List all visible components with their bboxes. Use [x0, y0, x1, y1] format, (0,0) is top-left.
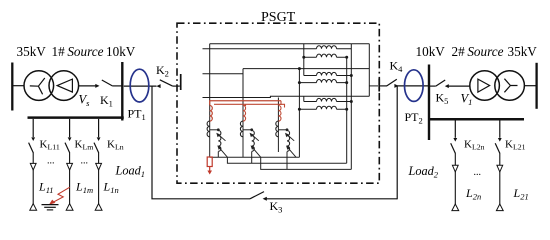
dots between feeders left	[47, 156, 88, 167]
wire transformer to bar right	[524, 85, 536, 87]
breaker K1	[95, 80, 121, 88]
label K3	[270, 199, 283, 215]
svg-text:...: ...	[474, 167, 482, 178]
label PSGT	[261, 10, 296, 25]
label K5	[436, 91, 449, 107]
label 2# Source	[452, 44, 504, 59]
label L2n	[465, 186, 481, 202]
svg-text:PSGT: PSGT	[261, 10, 296, 25]
load feeder KL2n	[451, 121, 459, 211]
wire collector C2	[227, 152, 346, 164]
label KLn	[107, 138, 124, 151]
svg-text:35kV: 35kV	[17, 44, 47, 59]
load feeder KL21	[495, 121, 503, 211]
label K4	[390, 59, 404, 75]
label Vs	[79, 93, 91, 109]
transformer T2 psgt	[298, 72, 351, 84]
breaker K3	[250, 192, 397, 201]
wire W1 top rail	[210, 43, 352, 45]
wire right vertical VR1	[350, 44, 353, 170]
wire W3 step	[203, 96, 352, 97]
label L11	[38, 180, 54, 196]
PT1 ellipse	[130, 69, 149, 102]
wire W1b upper coil lead	[203, 48, 317, 50]
transformer 2# source circle delta	[470, 71, 500, 101]
breaker K4	[379, 79, 398, 92]
psgt unit2	[240, 105, 260, 158]
load bus left	[28, 116, 124, 119]
label KLm	[75, 138, 94, 151]
label L1n	[103, 180, 119, 196]
svg-text:...: ...	[81, 156, 89, 167]
wire K4 to bus right	[397, 85, 430, 87]
svg-text:10kV: 10kV	[106, 44, 136, 59]
label KL2n	[464, 139, 485, 152]
label 35kV left	[17, 44, 47, 59]
transformer 1# source circle delta	[49, 71, 79, 101]
wire riser unit2	[242, 69, 244, 105]
wire collector C3	[261, 152, 352, 170]
wire right vertical VR2	[346, 57, 348, 163]
label 35kV right	[508, 44, 538, 59]
load feeder KLn	[94, 119, 102, 210]
label PT2	[405, 110, 423, 126]
grounding resistor red	[207, 157, 212, 175]
red excitation bus	[210, 101, 285, 108]
bus 10kV left	[121, 62, 123, 121]
svg-text:...: ...	[47, 156, 55, 167]
svg-text:1# Source: 1# Source	[52, 44, 104, 59]
breaker K2	[156, 74, 180, 90]
label V1	[461, 92, 473, 108]
transformer 1# source circle wye	[24, 71, 54, 101]
label L1m	[75, 180, 93, 196]
breaker K5	[430, 80, 470, 88]
psgt unit3	[276, 105, 296, 157]
load bus right	[428, 118, 524, 121]
label 10kV left	[106, 44, 136, 59]
transformer T3 psgt	[298, 98, 351, 110]
load feeder KLm	[65, 119, 73, 210]
svg-text:2# Source: 2# Source	[452, 44, 504, 59]
wire bar to transformer T1s	[13, 85, 24, 87]
svg-text:35kV: 35kV	[508, 44, 538, 59]
wire tap to K3 right	[396, 87, 398, 200]
transformer 2# source circle wye	[495, 71, 525, 101]
label KL21	[505, 139, 526, 152]
wire W2 step	[203, 69, 352, 74]
label K1	[100, 93, 113, 109]
wire tap to K3 left	[152, 86, 250, 199]
label Load1	[115, 164, 146, 180]
wire collector C1	[210, 152, 300, 158]
label 1# Source	[52, 44, 104, 59]
bus bar 35kV left	[11, 63, 13, 111]
label L21	[513, 186, 529, 202]
psgt unit1	[207, 105, 227, 157]
wire left vertical VL3	[303, 96, 305, 101]
wire riser unit1	[209, 44, 211, 105]
wire left vertical VL1	[303, 44, 305, 76]
ground symbol	[42, 205, 59, 210]
transformer T1 psgt	[302, 46, 351, 59]
wire transformer to K1	[79, 85, 96, 87]
wire left vertical VL2	[298, 67, 301, 157]
wire bus to K2	[124, 85, 157, 87]
svg-text:10kV: 10kV	[416, 44, 446, 59]
fault bolt red	[49, 187, 70, 205]
bus bar 35kV right	[535, 63, 537, 109]
label Load2	[408, 164, 439, 180]
label 10kV right	[416, 44, 446, 59]
load feeder KL11	[29, 119, 37, 210]
svg-text:Load1: Load1	[115, 164, 146, 180]
label PT1	[128, 107, 146, 123]
wire riser unit3	[277, 98, 279, 105]
PSGT box	[177, 23, 379, 183]
wire right extensions	[351, 44, 378, 97]
bus 10kV right	[428, 65, 430, 141]
label K2	[156, 63, 169, 79]
label KL11	[40, 138, 60, 151]
dots between feeders right	[474, 167, 482, 178]
PT2 ellipse	[405, 70, 424, 102]
